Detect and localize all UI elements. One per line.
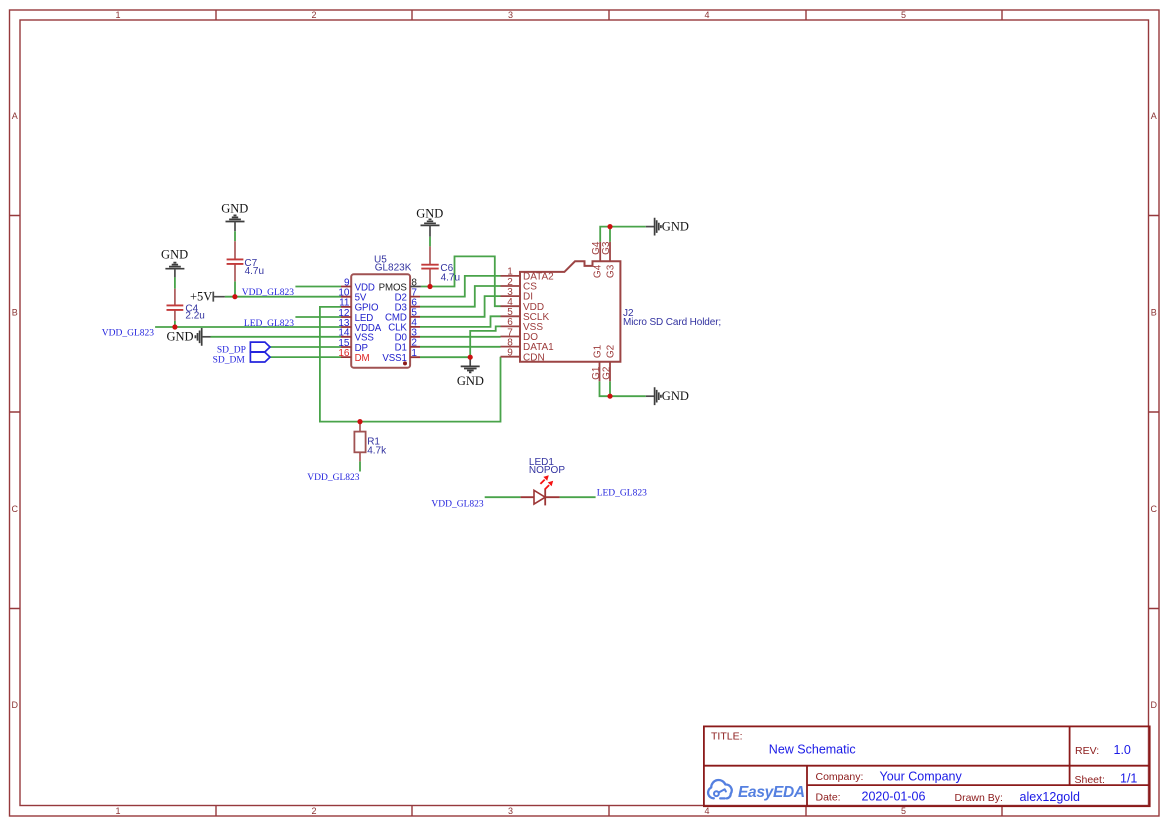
junction G2 bottom [607,394,612,399]
svg-text:Your Company: Your Company [880,770,963,784]
svg-text:Company:: Company: [816,771,864,783]
svg-text:TITLE:: TITLE: [711,730,743,742]
wire pin12 LED [295,316,341,318]
svg-text:3: 3 [508,10,513,20]
svg-text:2: 2 [311,806,316,816]
svg-text:C: C [12,504,19,514]
svg-text:G3: G3 [605,264,616,278]
IC U5 GL823K [338,255,421,368]
svg-text:+5V: +5V [190,290,212,304]
svg-text:Sheet:: Sheet: [1075,774,1105,786]
wire LED left [485,496,521,498]
EasyEDA logo [708,780,732,798]
svg-text:4.7u: 4.7u [441,273,460,284]
svg-text:G1: G1 [592,344,603,358]
svg-text:D: D [12,700,19,710]
svg-text:1.0: 1.0 [1114,743,1131,757]
svg-text:16: 16 [338,348,350,359]
junction VSS1 ground [468,355,473,360]
svg-text:New Schematic: New Schematic [769,743,856,757]
svg-text:G3: G3 [601,241,612,255]
svg-text:5: 5 [901,806,906,816]
capacitor C7 [227,231,264,297]
svg-text:3: 3 [508,806,513,816]
junction R1 [357,419,362,424]
svg-text:GND: GND [161,247,188,261]
svg-text:VDD_GL823: VDD_GL823 [307,473,359,483]
svg-text:NOPOP: NOPOP [529,465,565,476]
svg-text:1: 1 [115,10,120,20]
wire pin7 D2 to J2 DATA2 [420,276,501,297]
svg-text:A: A [1151,111,1157,121]
power flag +5V [190,290,225,304]
ground GND (above C6) [416,207,443,237]
ground flag GND (right of J2 top) [646,218,689,236]
svg-text:2: 2 [311,10,316,20]
svg-text:1: 1 [411,348,417,359]
svg-text:CDN: CDN [523,352,545,363]
svg-text:GND: GND [662,389,689,403]
svg-text:A: A [12,111,18,121]
wire pin8 PMOS to J2 VDD [421,256,501,306]
wire pin1 VSS1 to ground [420,356,470,358]
junction C4 [172,324,177,329]
svg-text:5: 5 [901,10,906,20]
svg-text:B: B [12,307,18,317]
wire pin9 VDD [295,286,341,288]
junction C6/pin8 [427,284,432,289]
svg-text:SD_DP: SD_DP [217,345,246,355]
svg-text:2: 2 [411,338,417,349]
capacitor C4 [167,277,205,327]
svg-text:VDD_GL823: VDD_GL823 [431,500,483,510]
svg-text:G2: G2 [601,366,612,380]
wire LED right [560,496,596,498]
svg-text:2.2u: 2.2u [185,311,204,322]
wire J2 G4 G3 to ground [600,227,646,242]
wire pin11 GPIO loop to R1 and J2 CDN [320,307,501,422]
ground GND (above C4) [161,247,188,277]
svg-text:VSS1: VSS1 [382,353,406,364]
wire pin2 D1 to J2 DATA1 [420,346,501,348]
wire pin15 DP [270,346,341,348]
svg-text:D1: D1 [395,343,407,354]
ground GND (above C7) [221,202,248,232]
svg-text:1/1: 1/1 [1120,772,1137,786]
net port SD_DM [213,352,270,365]
wire pin14 VSS to GND [211,336,342,338]
capacitor C6 [421,237,460,287]
svg-text:REV:: REV: [1075,745,1099,757]
svg-text:GND: GND [662,220,689,234]
junction G3 top [607,224,612,229]
svg-text:GND: GND [221,202,248,216]
svg-text:B: B [1151,307,1157,317]
svg-text:Date:: Date: [816,792,841,804]
svg-text:G4: G4 [592,264,603,278]
svg-text:EasyEDA: EasyEDA [738,784,805,801]
svg-text:C: C [1151,504,1158,514]
svg-text:alex12gold: alex12gold [1020,790,1081,804]
svg-text:9: 9 [507,348,513,359]
svg-text:4: 4 [704,806,709,816]
svg-text:G2: G2 [605,344,616,358]
resistor R1 [354,422,387,472]
svg-text:D: D [1151,700,1158,710]
svg-text:GND: GND [167,330,194,344]
wire pin4 CLK to J2 SCLK [420,316,501,327]
LED LED1 NOPOP [521,457,566,506]
svg-text:Micro SD Card Holder;: Micro SD Card Holder; [623,317,721,328]
ground flag GND (left, on VSS wire) [167,328,211,346]
wire VSS riser to J2 VSS [470,326,500,357]
svg-text:4.7u: 4.7u [245,266,264,277]
wire pin10 5V net VDD_GL823 [225,296,341,298]
svg-text:4: 4 [704,10,709,20]
ground GND (below IC pin1 VSS1) [457,357,484,388]
svg-text:Drawn By:: Drawn By: [955,792,1003,804]
wire pin16 DM [270,356,341,358]
svg-text:GND: GND [457,374,484,388]
wire pin3 D0 to J2 DO [420,336,501,338]
svg-text:GND: GND [416,207,443,221]
svg-text:LED_GL823: LED_GL823 [597,489,647,499]
svg-text:2020-01-06: 2020-01-06 [862,790,926,804]
connector J2 Micro SD Card Holder [501,241,722,381]
junction +5V/C7 [232,294,237,299]
svg-text:GL823K: GL823K [375,262,412,273]
svg-text:SD_DM: SD_DM [213,356,246,366]
wire pin6 D3 to J2 CS [420,286,501,307]
title block [704,726,1150,806]
wire J2 G1 G2 to ground [600,381,646,396]
wire pin13 VDDA net VDD_GL823 [155,326,341,328]
ground flag GND (right of J2 bottom) [646,387,689,405]
svg-text:LED_GL823: LED_GL823 [244,319,294,329]
svg-text:VDD_GL823: VDD_GL823 [242,288,294,298]
svg-text:DM: DM [355,353,370,364]
svg-text:1: 1 [115,806,120,816]
wire pin5 CMD to J2 DI [420,296,501,317]
svg-text:VDD_GL823: VDD_GL823 [102,329,154,339]
net port SD_DP [217,342,270,355]
svg-text:4.7k: 4.7k [367,446,387,457]
